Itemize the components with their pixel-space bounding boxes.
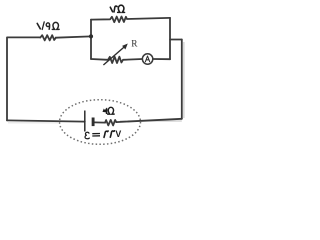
svg-text:R: R <box>131 39 138 49</box>
svg-text:V: V <box>115 129 121 139</box>
